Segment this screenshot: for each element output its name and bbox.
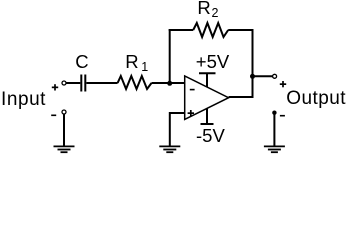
svg-text:C: C [75, 51, 88, 72]
svg-text:+5V: +5V [196, 51, 230, 72]
svg-text:2: 2 [212, 6, 219, 20]
svg-text:1: 1 [141, 60, 148, 74]
svg-text:R: R [197, 0, 210, 18]
svg-text:Input: Input [1, 89, 46, 110]
svg-text:-5V: -5V [196, 125, 225, 146]
svg-text:R: R [125, 51, 138, 72]
svg-text:Output: Output [286, 88, 346, 109]
